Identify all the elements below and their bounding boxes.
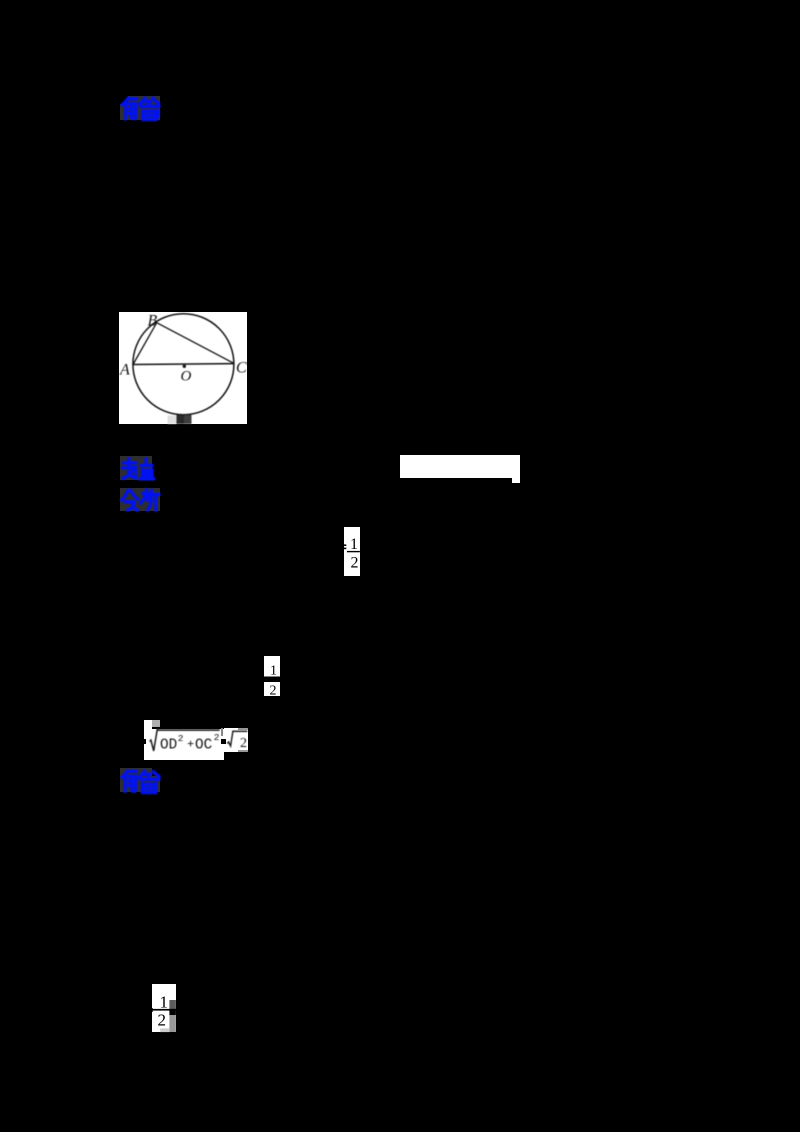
svg-text:2: 2 bbox=[240, 736, 247, 751]
svg-text:+: + bbox=[187, 737, 194, 751]
svg-text:2: 2 bbox=[270, 684, 277, 699]
svg-text:C: C bbox=[236, 360, 247, 377]
svg-text:2: 2 bbox=[351, 555, 359, 572]
svg-text:2: 2 bbox=[214, 732, 220, 743]
svg-text:2: 2 bbox=[158, 1011, 167, 1030]
svg-text:A: A bbox=[119, 362, 130, 379]
svg-text:1: 1 bbox=[160, 993, 169, 1012]
svg-text:OC: OC bbox=[195, 737, 212, 753]
svg-text:2: 2 bbox=[178, 733, 184, 744]
svg-text:B: B bbox=[148, 313, 158, 330]
svg-text:1: 1 bbox=[270, 664, 277, 679]
svg-text:O: O bbox=[181, 369, 192, 385]
svg-text:OD: OD bbox=[160, 737, 177, 753]
svg-text:1: 1 bbox=[350, 536, 358, 553]
